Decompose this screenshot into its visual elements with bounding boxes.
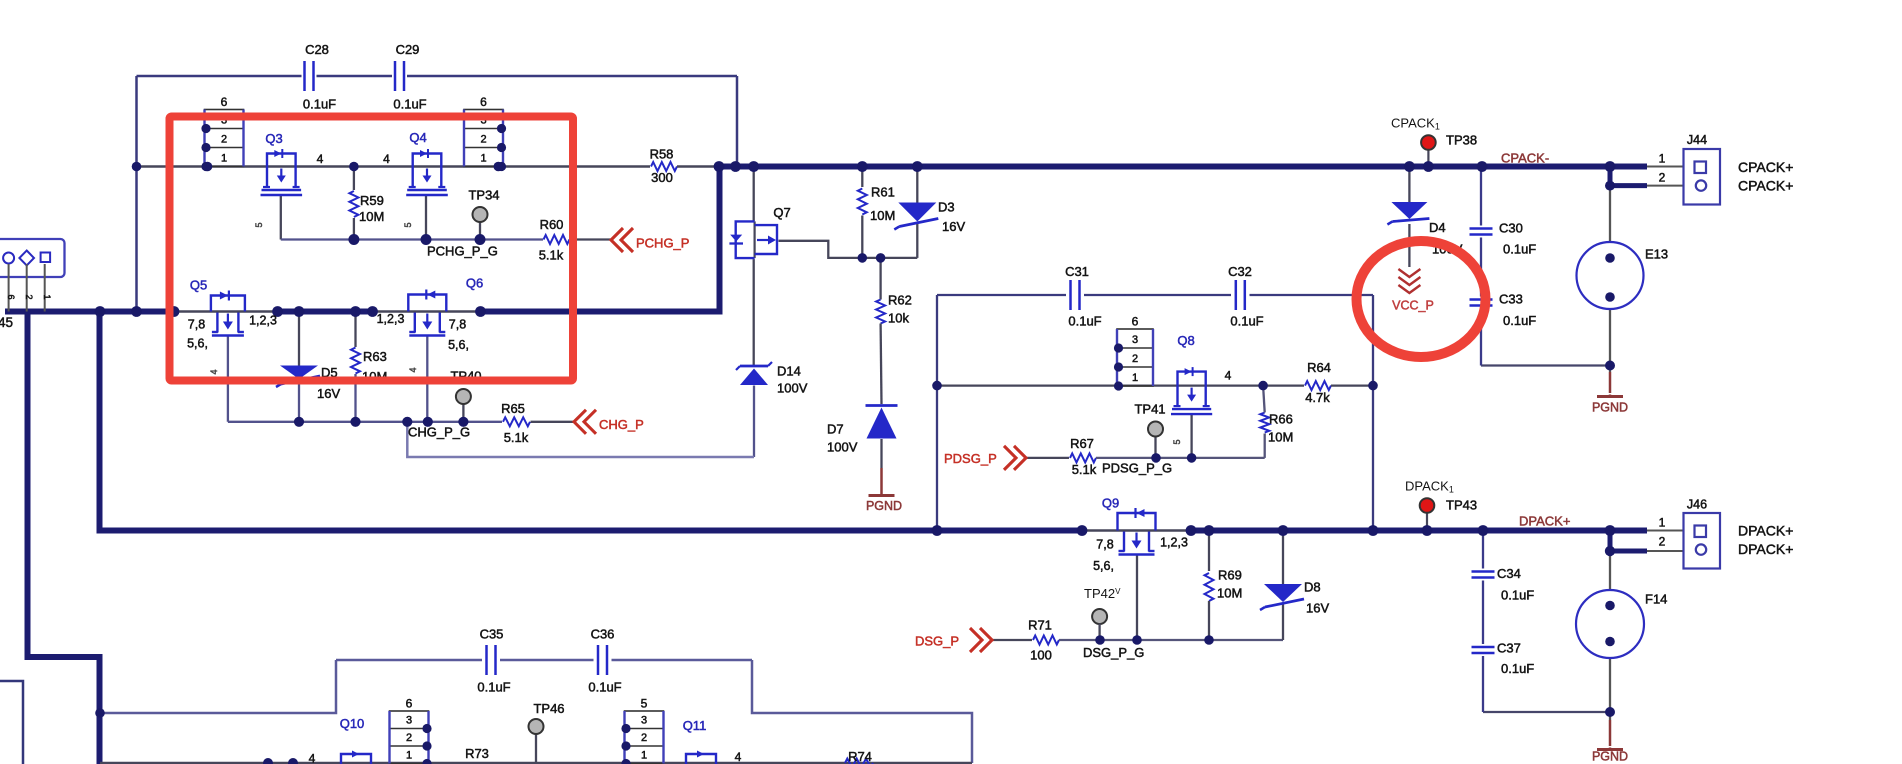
svg-text:0.1uF: 0.1uF <box>1230 314 1263 329</box>
svg-text:DPACK+: DPACK+ <box>1738 523 1793 539</box>
svg-text:C31: C31 <box>1065 264 1089 279</box>
svg-text:C37: C37 <box>1497 641 1521 656</box>
svg-text:0.1uF: 0.1uF <box>477 680 510 695</box>
svg-text:7,8: 7,8 <box>1096 538 1113 552</box>
svg-text:16V: 16V <box>942 219 965 234</box>
svg-text:10M: 10M <box>359 209 384 224</box>
svg-text:C34: C34 <box>1497 566 1521 581</box>
svg-text:0.1uF: 0.1uF <box>393 97 426 112</box>
svg-text:Q9: Q9 <box>1102 496 1119 511</box>
svg-text:6: 6 <box>480 95 487 109</box>
svg-text:10M: 10M <box>1217 586 1242 601</box>
svg-text:F14: F14 <box>1645 592 1667 607</box>
svg-text:6: 6 <box>221 95 228 109</box>
svg-text:5: 5 <box>1172 439 1182 444</box>
svg-text:R74: R74 <box>848 749 872 764</box>
svg-text:3: 3 <box>406 715 412 727</box>
svg-text:1: 1 <box>480 153 486 165</box>
svg-text:300: 300 <box>651 170 673 185</box>
svg-text:4: 4 <box>1225 369 1232 383</box>
svg-text:C36: C36 <box>591 627 615 642</box>
svg-text:R60: R60 <box>540 217 564 232</box>
svg-text:CPACK+: CPACK+ <box>1738 159 1793 175</box>
svg-text:C28: C28 <box>305 42 329 57</box>
svg-text:PGND: PGND <box>1592 750 1628 764</box>
svg-text:2: 2 <box>1132 353 1138 365</box>
svg-text:0.1uF: 0.1uF <box>1068 314 1101 329</box>
svg-text:Q8: Q8 <box>1177 333 1194 348</box>
svg-text:R58: R58 <box>650 147 674 162</box>
svg-text:4: 4 <box>209 369 219 374</box>
svg-text:TP46: TP46 <box>533 701 564 716</box>
svg-text:1: 1 <box>641 750 647 762</box>
svg-text:DSG_P_G: DSG_P_G <box>1083 645 1144 660</box>
svg-text:5,6,: 5,6, <box>187 337 208 351</box>
svg-text:5,6,: 5,6, <box>1093 559 1114 573</box>
svg-text:1: 1 <box>221 153 227 165</box>
svg-text:Q7: Q7 <box>773 205 790 220</box>
svg-text:3: 3 <box>641 715 647 727</box>
svg-text:DPACK1: DPACK1 <box>1405 479 1454 495</box>
svg-text:Q6: Q6 <box>466 276 483 291</box>
svg-text:1: 1 <box>406 750 412 762</box>
svg-text:VCC_P: VCC_P <box>1392 299 1434 313</box>
svg-text:PCHG_P: PCHG_P <box>636 236 689 251</box>
svg-text:1: 1 <box>1659 516 1666 530</box>
svg-text:0.1uF: 0.1uF <box>1501 588 1534 603</box>
svg-text:TP43: TP43 <box>1446 498 1477 513</box>
svg-text:2: 2 <box>1659 535 1666 549</box>
svg-text:R71: R71 <box>1028 618 1052 633</box>
svg-text:R61: R61 <box>871 185 895 200</box>
svg-text:C29: C29 <box>396 42 420 57</box>
svg-text:6: 6 <box>1132 315 1139 329</box>
svg-text:2: 2 <box>406 732 412 744</box>
svg-text:0.1uF: 0.1uF <box>588 680 621 695</box>
svg-text:45: 45 <box>0 315 13 330</box>
svg-text:Q4: Q4 <box>409 130 426 145</box>
svg-text:C30: C30 <box>1499 221 1523 236</box>
svg-text:DPACK+: DPACK+ <box>1738 541 1793 557</box>
svg-text:1: 1 <box>42 294 52 299</box>
svg-text:R66: R66 <box>1269 412 1293 427</box>
svg-text:PDSG_P: PDSG_P <box>944 451 997 466</box>
svg-text:PDSG_P_G: PDSG_P_G <box>1102 461 1172 476</box>
svg-text:2: 2 <box>641 732 647 744</box>
svg-text:5,6,: 5,6, <box>448 338 469 352</box>
svg-text:5.1k: 5.1k <box>1072 462 1097 477</box>
svg-text:PGND: PGND <box>1592 401 1628 415</box>
svg-text:16V: 16V <box>317 386 340 401</box>
svg-text:R73: R73 <box>465 746 489 761</box>
svg-text:CPACK+: CPACK+ <box>1738 178 1793 194</box>
svg-text:16V: 16V <box>1306 601 1329 616</box>
svg-text:D4: D4 <box>1429 220 1446 235</box>
svg-text:TP34: TP34 <box>468 188 499 203</box>
svg-text:10k: 10k <box>888 311 909 326</box>
svg-text:R64: R64 <box>1307 360 1331 375</box>
svg-text:TP38: TP38 <box>1446 133 1477 148</box>
svg-text:5: 5 <box>254 222 264 227</box>
svg-text:3: 3 <box>1132 334 1138 346</box>
svg-text:4.7k: 4.7k <box>1305 390 1330 405</box>
svg-text:2: 2 <box>1659 171 1666 185</box>
svg-text:100: 100 <box>1030 648 1052 663</box>
svg-text:D7: D7 <box>827 422 844 437</box>
svg-text:2: 2 <box>221 134 227 146</box>
svg-text:2: 2 <box>24 294 34 299</box>
svg-text:4: 4 <box>317 152 324 166</box>
svg-text:R62: R62 <box>888 293 912 308</box>
svg-text:R67: R67 <box>1070 436 1094 451</box>
svg-text:5.1k: 5.1k <box>539 248 564 263</box>
svg-text:C35: C35 <box>480 627 504 642</box>
svg-text:1: 1 <box>1659 152 1666 166</box>
svg-text:7,8: 7,8 <box>449 318 466 332</box>
svg-text:Q5: Q5 <box>190 278 207 293</box>
svg-text:4: 4 <box>309 752 316 764</box>
svg-text:D8: D8 <box>1304 580 1321 595</box>
svg-text:D3: D3 <box>938 200 955 215</box>
svg-text:0.1uF: 0.1uF <box>1501 661 1534 676</box>
svg-text:7,8: 7,8 <box>188 318 205 332</box>
svg-text:1,2,3: 1,2,3 <box>377 312 405 326</box>
svg-text:R63: R63 <box>363 349 387 364</box>
svg-text:4: 4 <box>408 367 418 372</box>
svg-text:R59: R59 <box>360 193 384 208</box>
svg-text:1,2,3: 1,2,3 <box>249 314 277 328</box>
svg-text:DPACK+: DPACK+ <box>1519 514 1570 529</box>
svg-text:R69: R69 <box>1218 568 1242 583</box>
svg-text:E13: E13 <box>1645 247 1668 262</box>
svg-text:TP41: TP41 <box>1134 402 1165 417</box>
svg-text:100V: 100V <box>827 440 858 455</box>
svg-text:C32: C32 <box>1228 264 1252 279</box>
svg-text:5.1k: 5.1k <box>504 430 529 445</box>
svg-text:Q3: Q3 <box>265 131 282 146</box>
svg-text:Q10: Q10 <box>340 716 365 731</box>
svg-text:5: 5 <box>641 697 648 711</box>
svg-text:CPACK-: CPACK- <box>1501 151 1549 166</box>
svg-text:DSG_P: DSG_P <box>915 634 959 649</box>
svg-text:CHG_P_G: CHG_P_G <box>408 425 470 440</box>
svg-text:6: 6 <box>6 294 16 299</box>
svg-text:4: 4 <box>735 750 742 764</box>
svg-text:5: 5 <box>403 222 413 227</box>
svg-text:4: 4 <box>383 152 390 166</box>
svg-text:R65: R65 <box>501 401 525 416</box>
svg-text:C33: C33 <box>1499 292 1523 307</box>
svg-text:CHG_P: CHG_P <box>599 417 644 432</box>
svg-text:Q11: Q11 <box>683 718 707 733</box>
svg-text:6: 6 <box>406 697 413 711</box>
svg-text:100V: 100V <box>777 381 808 396</box>
svg-text:PCHG_P_G: PCHG_P_G <box>427 244 498 259</box>
svg-text:10M: 10M <box>1268 430 1293 445</box>
svg-text:CPACK1: CPACK1 <box>1391 116 1440 132</box>
svg-text:10M: 10M <box>870 208 895 223</box>
svg-text:0.1uF: 0.1uF <box>303 97 336 112</box>
svg-text:1,2,3: 1,2,3 <box>1160 536 1188 550</box>
svg-text:PGND: PGND <box>866 499 902 513</box>
svg-text:0.1uF: 0.1uF <box>1503 313 1536 328</box>
svg-text:0.1uF: 0.1uF <box>1503 242 1536 257</box>
svg-text:1: 1 <box>1132 372 1138 384</box>
svg-text:J46: J46 <box>1687 498 1707 512</box>
svg-text:D14: D14 <box>777 364 801 379</box>
svg-text:J44: J44 <box>1687 133 1707 147</box>
svg-text:2: 2 <box>480 134 486 146</box>
